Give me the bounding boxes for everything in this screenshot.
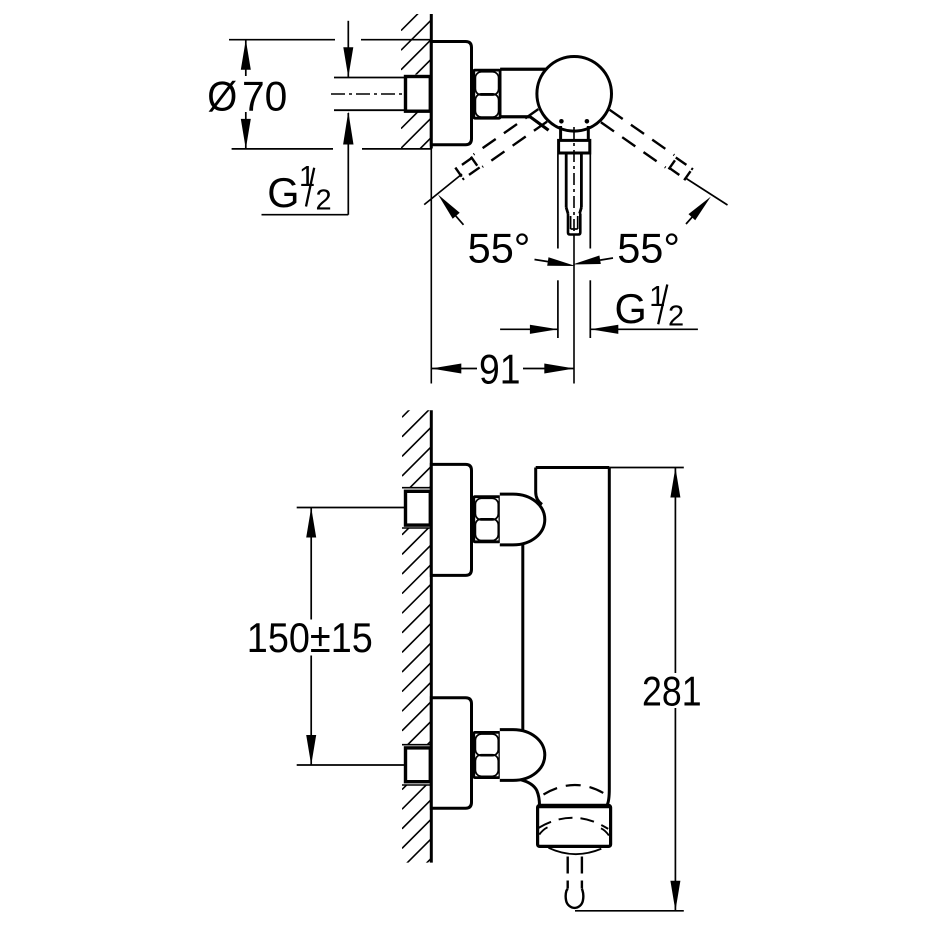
svg-text:G: G (615, 285, 647, 332)
svg-text:55°: 55° (617, 225, 680, 272)
svg-text:150±15: 150±15 (247, 614, 373, 661)
svg-text:Ø: Ø (207, 72, 237, 119)
svg-text:2: 2 (668, 301, 684, 333)
svg-text:281: 281 (642, 667, 702, 714)
svg-text:1: 1 (649, 281, 665, 313)
svg-text:2: 2 (316, 184, 332, 216)
svg-text:91: 91 (479, 346, 521, 393)
svg-text:55°: 55° (468, 225, 531, 272)
svg-text:G: G (267, 169, 299, 216)
svg-text:70: 70 (242, 72, 287, 119)
